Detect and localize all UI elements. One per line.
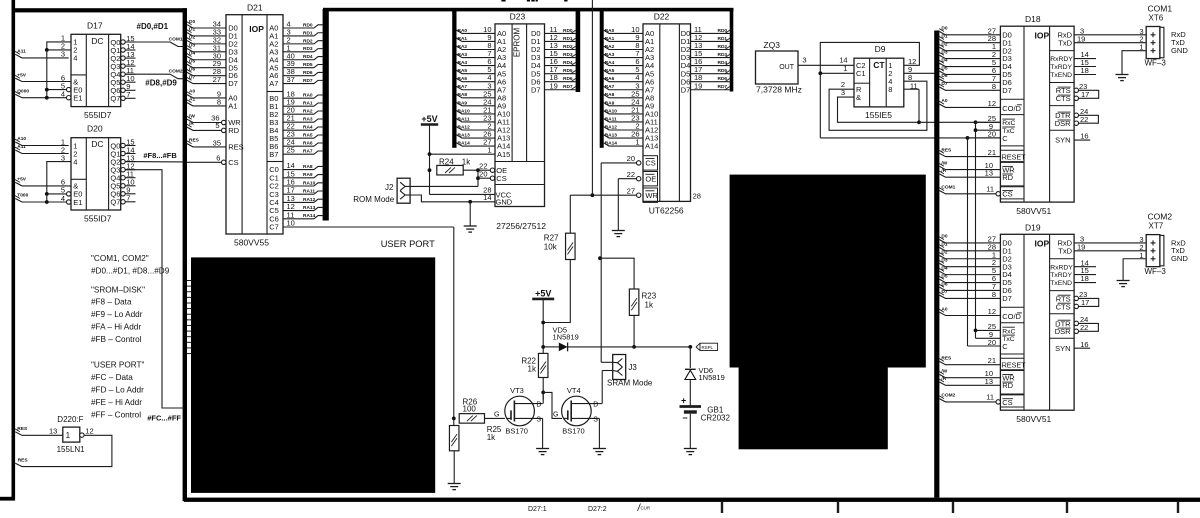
svg-text:RA14: RA14 [605, 141, 618, 147]
svg-text:13: 13 [985, 377, 993, 386]
wire +5V to D20 pin 6 [15, 177, 71, 186]
block border top line middle [323, 8, 734, 12]
svg-text:RD5: RD5 [303, 62, 313, 68]
diode VD5 1N5819 [543, 325, 690, 351]
svg-text:D4: D4 [941, 57, 947, 63]
svg-text:#FC – Data: #FC – Data [91, 373, 133, 382]
svg-text:RA8: RA8 [303, 164, 313, 170]
svg-text:1N5819: 1N5819 [553, 333, 579, 342]
wire R24 to D23 OE CS [463, 161, 494, 186]
svg-text:A15: A15 [497, 150, 510, 159]
svg-text:12: 12 [85, 427, 93, 436]
cursor mark CUR [638, 504, 651, 512]
svg-text:"COM1, COM2": "COM1, COM2" [91, 254, 149, 263]
XT7 GND pin wire to ground [1117, 259, 1147, 287]
jumper J2 ROM Mode [353, 178, 410, 204]
svg-text:1k: 1k [528, 364, 537, 373]
svg-text:E1: E1 [73, 94, 82, 103]
svg-text:DC: DC [91, 139, 103, 149]
resistor R23 1k branch to battery rail [600, 258, 657, 349]
svg-text:RA4: RA4 [458, 60, 468, 66]
wire C7 net down to R26/R25 [452, 227, 456, 420]
D21 pins A0 A1 wires [187, 89, 226, 107]
label #D8,#D9 [145, 79, 177, 88]
svg-text:#FF – Control: #FF – Control [91, 410, 141, 419]
D21 port A outputs RD0-RD7 [283, 20, 323, 85]
vertical clock tie C D18-D19 [967, 138, 969, 346]
svg-text:+5V: +5V [17, 72, 26, 78]
D9 pin12 feedback loop to C1 [818, 42, 919, 137]
D22 address input wires RA0-RA14 [604, 25, 643, 147]
svg-text:D6: D6 [941, 73, 947, 79]
svg-text:25: 25 [287, 146, 295, 155]
svg-text:EPROM: EPROM [513, 28, 522, 58]
svg-text:RA9: RA9 [458, 100, 468, 106]
svg-text:21: 21 [988, 148, 996, 157]
redacted area 1 bus stubs [187, 281, 192, 354]
svg-text:+5V: +5V [421, 114, 437, 124]
D19 WR RD wires [939, 369, 1000, 386]
D18 RxC TxC C pin wires [968, 114, 1001, 139]
svg-text:DC: DC [91, 36, 103, 46]
svg-text:RES: RES [941, 147, 952, 153]
svg-text:A0: A0 [941, 98, 947, 104]
svg-text:WR: WR [645, 191, 658, 200]
sheet border left bar [12, 0, 16, 501]
svg-text:D0: D0 [189, 19, 195, 25]
svg-text:RA11: RA11 [458, 116, 470, 122]
svg-text:22: 22 [1080, 115, 1088, 124]
svg-text:8: 8 [992, 290, 996, 299]
svg-text:BS170: BS170 [562, 426, 585, 435]
svg-text:D4: D4 [941, 265, 947, 271]
svg-text:IOP: IOP [1035, 239, 1050, 249]
svg-text:17: 17 [1081, 90, 1089, 99]
svg-text:A10: A10 [17, 136, 26, 142]
svg-text:35: 35 [213, 138, 221, 147]
svg-text:COM1: COM1 [941, 185, 955, 191]
svg-text:C1: C1 [856, 69, 866, 78]
inverter D220:F (155LN1) [49, 415, 94, 454]
wire /Q000 to D17 E1 [15, 89, 66, 98]
svg-text:J2: J2 [385, 183, 394, 192]
D18 DTR-DSR loopback [1074, 107, 1098, 126]
svg-text:RA13: RA13 [458, 132, 471, 138]
svg-text:#FE – Hi Addr: #FE – Hi Addr [91, 398, 142, 407]
svg-text:&: & [856, 93, 861, 102]
D22 data output wires RD0-RD7 [691, 25, 730, 90]
svg-text:G: G [553, 412, 558, 419]
svg-text:R24: R24 [439, 157, 454, 166]
block border top line left [13, 8, 187, 12]
XT6 GND pin wire to ground [1116, 51, 1147, 81]
PPI D21 (580VV55) box [226, 3, 283, 248]
D18 A0 wire to CO/D [939, 98, 1000, 108]
svg-text:RA5: RA5 [303, 133, 313, 139]
svg-text:RA14: RA14 [458, 141, 471, 147]
svg-text:IOP: IOP [1035, 31, 1050, 41]
D21 port B outputs RA0-RA7 [283, 90, 323, 155]
bus bar A (D21 outputs) [323, 9, 329, 221]
svg-text:RA12: RA12 [303, 197, 316, 203]
svg-text:4: 4 [73, 54, 77, 63]
USART D19 (580VV51) box [1000, 222, 1074, 424]
svg-text:COM2: COM2 [1148, 211, 1173, 221]
svg-text:100: 100 [463, 405, 477, 414]
svg-text:#D0,#D1: #D0,#D1 [137, 22, 169, 31]
svg-text:A14: A14 [645, 142, 658, 151]
svg-text:RA6: RA6 [605, 76, 615, 82]
svg-text:#FC...#FF: #FC...#FF [147, 414, 181, 423]
svg-text:TxEND: TxEND [1050, 280, 1072, 287]
svg-text:RA3: RA3 [605, 52, 615, 58]
svg-text:RA6: RA6 [303, 141, 313, 147]
svg-text:GND: GND [496, 198, 513, 207]
svg-text:D7: D7 [941, 289, 947, 295]
svg-text:COM1: COM1 [1148, 3, 1173, 13]
transistor VT3 BS170 [494, 386, 543, 435]
svg-text:1: 1 [843, 64, 847, 73]
svg-text:37: 37 [287, 75, 295, 84]
svg-text:RA5: RA5 [605, 68, 615, 74]
SRAM D22 box [643, 12, 701, 216]
svg-text:RA7: RA7 [303, 149, 313, 155]
svg-text:D21: D21 [247, 3, 263, 13]
svg-text:RA2: RA2 [303, 109, 313, 115]
svg-text:IOP: IOP [249, 24, 264, 34]
clock wire C net to D18/D19 [820, 136, 1000, 140]
bus bar E (D22 data) [730, 8, 734, 92]
svg-text:RA13: RA13 [303, 205, 316, 211]
svg-text:RA0: RA0 [605, 28, 615, 34]
svg-text:UT62256: UT62256 [649, 206, 684, 216]
svg-text:OE: OE [645, 174, 656, 183]
D19 SYN stub [1074, 340, 1090, 349]
svg-text:RxRDY: RxRDY [1050, 56, 1073, 63]
svg-text:C7: C7 [269, 223, 279, 232]
svg-text:D: D [536, 402, 541, 409]
VT4 source to ground [593, 418, 606, 454]
D22 WR wire [570, 186, 641, 197]
svg-text:TxD: TxD [1058, 38, 1072, 47]
svg-text:COM2: COM2 [941, 393, 955, 399]
svg-text:555ID7: 555ID7 [84, 214, 112, 224]
svg-text:21: 21 [988, 356, 996, 365]
svg-text:#D8,#D9: #D8,#D9 [145, 79, 177, 88]
svg-text:/R: /R [941, 168, 946, 174]
wire SRAM CS chain down to J3 [598, 163, 602, 362]
svg-text:18: 18 [1081, 66, 1089, 75]
svg-text:580VV51: 580VV51 [1016, 414, 1051, 424]
svg-text:RESET: RESET [1002, 153, 1027, 162]
bus bar right section [934, 31, 939, 498]
svg-text:D0: D0 [941, 26, 947, 32]
svg-text:#F8 – Data: #F8 – Data [91, 298, 132, 307]
svg-text:XT7: XT7 [1149, 222, 1164, 231]
svg-text:CS: CS [496, 174, 506, 183]
vertical clock tie RxC/TxC D18-D19 [974, 122, 978, 338]
svg-text:WF–3: WF–3 [1145, 59, 1167, 68]
svg-text:19: 19 [694, 81, 702, 90]
svg-text:RA10: RA10 [605, 108, 618, 114]
svg-text:D220:F: D220:F [57, 415, 83, 424]
svg-text:D27:1: D27:1 [528, 506, 547, 513]
svg-text:RES: RES [941, 356, 952, 362]
USART D18 (580VV51) box [1000, 14, 1074, 216]
svg-text:D3: D3 [941, 49, 947, 55]
power +5V symbol (battery section) [532, 288, 554, 353]
D9 pin8 to R reset loop [829, 73, 927, 131]
svg-text:19: 19 [1077, 34, 1085, 43]
D21 WR RD wires [187, 113, 226, 132]
svg-text:A11: A11 [17, 48, 26, 54]
svg-text:D1: D1 [189, 27, 195, 33]
svg-text:OUT: OUT [779, 64, 795, 71]
svg-text:RA12: RA12 [605, 124, 618, 130]
wire A11 to D20 pin 2 [15, 144, 69, 153]
svg-text:RA12: RA12 [458, 124, 471, 130]
svg-text:G: G [494, 412, 499, 419]
svg-text:RD: RD [1002, 173, 1013, 182]
svg-text:BS170: BS170 [505, 426, 528, 435]
wire VT3 drain to VT4 gate [543, 392, 562, 418]
svg-text:RD2: RD2 [303, 38, 313, 44]
wire A11 to D17 pin 3 [15, 48, 69, 58]
svg-text:#FB – Control: #FB – Control [91, 335, 142, 344]
svg-text:+5V: +5V [17, 177, 26, 183]
svg-text:R27: R27 [544, 234, 559, 243]
svg-text:28: 28 [693, 191, 701, 200]
svg-text:11: 11 [910, 81, 918, 90]
svg-text:6: 6 [216, 153, 220, 162]
svg-text:TxD: TxD [1058, 246, 1072, 255]
svg-text:/W: /W [189, 113, 195, 119]
svg-text:20: 20 [988, 338, 996, 347]
D18 SYN stub [1074, 132, 1090, 141]
svg-text:1k: 1k [487, 433, 496, 442]
svg-text:RA1: RA1 [605, 36, 615, 42]
svg-text:T000: T000 [17, 193, 28, 199]
svg-text:27256/27512: 27256/27512 [496, 221, 546, 231]
svg-text:D5: D5 [189, 59, 195, 65]
svg-text:D7: D7 [228, 79, 238, 88]
svg-text:RA2: RA2 [458, 44, 468, 50]
net #FC...#FF : D20 Q3 down to bus [126, 170, 185, 423]
svg-text:580VV51: 580VV51 [1016, 206, 1051, 216]
D23 address input wires RA0-RA14 [457, 25, 496, 147]
svg-text:RA11: RA11 [303, 189, 315, 195]
bus bar D (D22 address) [600, 10, 604, 148]
svg-text:1: 1 [487, 146, 491, 155]
svg-text:10k: 10k [544, 243, 558, 252]
svg-text:13: 13 [985, 169, 993, 178]
connector XT7 COM2 [1139, 211, 1188, 275]
svg-text:14: 14 [483, 193, 491, 202]
D21 port C outputs RA8-RA14 [283, 161, 323, 219]
resistor R24 1k [437, 157, 471, 175]
wire D20 pin3 tie to E0/E1 [45, 162, 71, 204]
svg-text:RA5: RA5 [458, 68, 468, 74]
svg-text:GND: GND [1171, 254, 1188, 263]
svg-text:RES: RES [189, 138, 200, 144]
svg-text:D9: D9 [875, 44, 886, 54]
svg-text:VT4: VT4 [567, 386, 581, 395]
counter D9 (155IE5) box [854, 44, 904, 107]
ground below D23 [464, 202, 477, 232]
wire /T000 to D20 E1 [15, 193, 66, 202]
svg-text:D6: D6 [941, 281, 947, 287]
D19 data input wires D0-D7 [939, 234, 1000, 299]
D18 CS wire [939, 185, 1000, 196]
svg-text:RA8: RA8 [458, 92, 468, 98]
svg-text:C: C [1002, 134, 1008, 143]
wire D17 select tie (pins 1,2,E0,E1) [45, 42, 71, 100]
svg-text:D1: D1 [941, 34, 947, 40]
svg-text:E1: E1 [73, 198, 82, 207]
svg-text:CS: CS [228, 158, 238, 167]
svg-text:D18: D18 [1025, 14, 1041, 24]
svg-text:Q000: Q000 [17, 89, 29, 95]
svg-text:1k: 1k [462, 157, 471, 166]
svg-text:A1: A1 [228, 102, 237, 111]
resistor R25 1k [449, 418, 501, 483]
VT3 source to ground [536, 418, 549, 454]
svg-text:RA4: RA4 [303, 125, 313, 131]
svg-text:10: 10 [287, 219, 295, 228]
wire D17 Q0 to COM1 bus entry [126, 36, 185, 46]
diode VD6 1N5819 [685, 347, 725, 382]
svg-text:D7: D7 [531, 85, 541, 94]
svg-text:D0: D0 [941, 234, 947, 240]
svg-text:555ID7: 555ID7 [84, 110, 112, 120]
resistor R26 100 [459, 398, 505, 424]
svg-text:/R: /R [941, 376, 946, 382]
svg-text:GND: GND [1171, 46, 1188, 55]
svg-text:/R: /R [189, 121, 194, 127]
svg-text:D17: D17 [87, 20, 103, 30]
svg-text:11: 11 [986, 393, 994, 402]
svg-text:D7: D7 [189, 74, 195, 80]
svg-text:A1: A1 [189, 97, 195, 103]
svg-text:D7: D7 [941, 81, 947, 87]
crystal oscillator ZQ3 [756, 40, 802, 94]
svg-text:D19: D19 [1025, 222, 1041, 232]
redacted area 2 upper [730, 175, 926, 368]
svg-text:20: 20 [627, 154, 635, 163]
svg-text:20: 20 [479, 169, 487, 178]
wire /WR from top of sheet [591, 0, 593, 195]
svg-text:D5: D5 [941, 273, 947, 279]
svg-text:ZQ3: ZQ3 [763, 40, 780, 50]
svg-text:J3: J3 [628, 363, 637, 372]
svg-text:D23: D23 [510, 12, 526, 22]
sheet bottom thick line [184, 498, 1200, 502]
sheet border bottom-left corner [0, 497, 15, 501]
svg-text:1: 1 [635, 138, 639, 147]
svg-text:RA2: RA2 [605, 44, 615, 50]
wire A10 to D20 pin 1 [15, 136, 69, 145]
clock wire to D18/D19 RxC [919, 120, 1000, 124]
svg-text:RD: RD [1002, 381, 1013, 390]
note COM1,COM2 address list [91, 254, 170, 419]
svg-text:7,3728 MHz: 7,3728 MHz [756, 85, 802, 95]
D22 CS wire [601, 154, 641, 165]
svg-text:8: 8 [888, 85, 892, 94]
redacted area 1 [191, 257, 435, 493]
bus bar B (D23 address) [452, 10, 456, 148]
svg-text:RA9: RA9 [303, 172, 313, 178]
D18 WR RD wires [939, 160, 1000, 177]
wire J2 pin2 to GND net [410, 193, 495, 204]
svg-text:1k: 1k [645, 301, 654, 310]
D18 RTS-CTS loopback [1074, 82, 1099, 101]
svg-text:−: − [682, 413, 687, 423]
svg-text:1: 1 [66, 431, 71, 440]
power +5V symbol (EPROM section) [421, 114, 438, 194]
svg-text:D7: D7 [1002, 86, 1012, 95]
svg-text:USER PORT: USER PORT [381, 239, 435, 249]
net #F8...#FB : D20 Q2 to D21 CS [126, 151, 184, 162]
svg-text:RA10: RA10 [458, 108, 471, 114]
bottom edge labels D27:1 D27:2 [528, 506, 607, 513]
svg-text:RA14: RA14 [303, 213, 316, 219]
svg-text:3: 3 [841, 88, 845, 97]
svg-text:COM1: COM1 [169, 36, 183, 42]
svg-text:22: 22 [1080, 323, 1088, 332]
connector XT6 COM1 [1139, 3, 1188, 67]
D19 RxD TxD output wires [1074, 235, 1146, 252]
svg-text:A0: A0 [189, 89, 195, 95]
svg-text:CT: CT [873, 60, 885, 70]
svg-text:20: 20 [988, 130, 996, 139]
D18 RESET wire [939, 147, 1000, 157]
D21 CS wire from #F8 net [187, 153, 226, 164]
svg-text:RD6: RD6 [303, 70, 313, 76]
svg-text:RD1: RD1 [303, 30, 313, 36]
svg-text:D2: D2 [941, 41, 947, 47]
svg-text:RA10: RA10 [303, 180, 316, 186]
svg-text:A0: A0 [941, 306, 947, 312]
D9 pin11 output and & loop [838, 81, 921, 124]
svg-text:Q7: Q7 [110, 94, 120, 103]
svg-text:13: 13 [49, 427, 57, 436]
svg-text:Q7: Q7 [110, 198, 120, 207]
svg-text:12: 12 [988, 99, 996, 108]
VT4 drain wire up to J3 [599, 371, 602, 404]
svg-text:SRAM Mode: SRAM Mode [607, 379, 653, 388]
svg-text:RD0: RD0 [303, 22, 313, 28]
wire D17 Q4 to COM2 bus entry [126, 69, 185, 79]
D23 A15 wire to +5V [430, 146, 496, 155]
svg-text:RD3: RD3 [303, 46, 313, 52]
svg-text:S: S [536, 417, 541, 424]
svg-text:RxC: RxC [1002, 120, 1015, 127]
svg-text:D3: D3 [189, 43, 195, 49]
svg-text:RA3: RA3 [458, 52, 468, 58]
decoder D20 (555ID7) [61, 124, 136, 224]
battery GB1 CR2032 [680, 380, 731, 455]
svg-text:#F8...#FB: #F8...#FB [143, 151, 177, 160]
svg-text:A11: A11 [17, 144, 26, 150]
svg-text:D: D [593, 402, 598, 409]
svg-text:D6: D6 [189, 66, 195, 72]
svg-text:3: 3 [802, 55, 806, 64]
svg-text:D1: D1 [941, 242, 947, 248]
svg-text:4: 4 [73, 157, 77, 166]
ground below R25 [448, 483, 461, 490]
redacted area 2 lower [739, 367, 888, 449]
svg-text:ROM Mode: ROM Mode [353, 195, 394, 204]
